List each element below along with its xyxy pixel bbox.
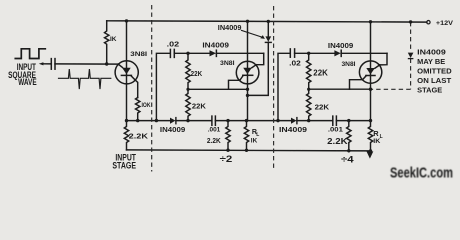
- svg-text:.02: .02: [289, 58, 301, 67]
- svg-text:IN4009: IN4009: [202, 43, 229, 50]
- svg-text:IK: IK: [110, 36, 117, 43]
- svg-text:IK: IK: [373, 138, 380, 145]
- svg-text:22K: 22K: [315, 103, 330, 112]
- svg-text:3N8I: 3N8I: [342, 61, 356, 68]
- svg-text:WAVE: WAVE: [18, 77, 37, 87]
- svg-text:SeekIC.com: SeekIC.com: [390, 165, 453, 182]
- svg-text:IN4009: IN4009: [328, 43, 354, 50]
- svg-text:3N8I: 3N8I: [130, 51, 147, 58]
- svg-text:22K: 22K: [313, 69, 328, 78]
- svg-text:STAGE: STAGE: [417, 88, 442, 95]
- svg-text:2.2K: 2.2K: [327, 137, 348, 146]
- svg-text:.02: .02: [167, 40, 180, 49]
- svg-text:2.2K: 2.2K: [129, 131, 149, 140]
- svg-text:IK: IK: [251, 137, 258, 144]
- svg-text:÷4: ÷4: [341, 154, 354, 164]
- svg-text:IN4009: IN4009: [160, 125, 185, 134]
- svg-text:÷2: ÷2: [220, 154, 233, 164]
- svg-text:.001: .001: [208, 127, 221, 134]
- svg-text:IN4009: IN4009: [417, 49, 446, 56]
- svg-text:OMITTED: OMITTED: [417, 69, 452, 76]
- svg-text:IN4009: IN4009: [218, 25, 242, 32]
- svg-text:IN4009: IN4009: [279, 125, 307, 134]
- svg-text:STAGE: STAGE: [112, 161, 136, 171]
- svg-text:MAY BE: MAY BE: [417, 59, 445, 66]
- svg-text:.001: .001: [328, 127, 343, 134]
- svg-text:+12V: +12V: [436, 20, 454, 27]
- svg-text:3N8I: 3N8I: [220, 60, 235, 67]
- svg-text:22K: 22K: [191, 71, 203, 78]
- svg-text:ON LAST: ON LAST: [417, 78, 452, 85]
- svg-text:IOK: IOK: [142, 102, 151, 109]
- svg-text:2.2K: 2.2K: [207, 136, 222, 145]
- svg-text:22K: 22K: [192, 102, 207, 111]
